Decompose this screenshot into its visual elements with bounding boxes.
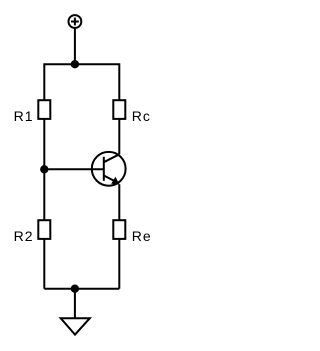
wire to ground <box>74 289 76 319</box>
wire R2 to bottom rail <box>43 239 45 289</box>
svg-text:R2: R2 <box>14 228 34 244</box>
wire bottom rail <box>44 288 119 290</box>
resistor Re <box>113 220 125 239</box>
wire Rc to collector <box>118 119 120 154</box>
wire base <box>44 168 104 170</box>
ground <box>61 318 90 334</box>
wire emitter to Re <box>118 184 120 220</box>
node junction bottom <box>72 286 78 292</box>
wire R1 to R2 <box>43 119 45 220</box>
resistor R2 <box>38 220 50 239</box>
power supply V+ <box>69 15 82 28</box>
resistor R1 <box>38 100 50 119</box>
wire Re to bottom rail <box>118 239 120 289</box>
transistor Q1 <box>92 152 126 186</box>
svg-text:Re: Re <box>132 228 152 244</box>
svg-text:Rc: Rc <box>132 108 151 124</box>
wire supply to top rail <box>74 28 76 64</box>
svg-text:R1: R1 <box>14 108 34 124</box>
node junction top <box>72 61 78 67</box>
wire top rail <box>44 64 119 100</box>
node base junction <box>41 166 47 172</box>
resistor Rc <box>113 100 125 119</box>
